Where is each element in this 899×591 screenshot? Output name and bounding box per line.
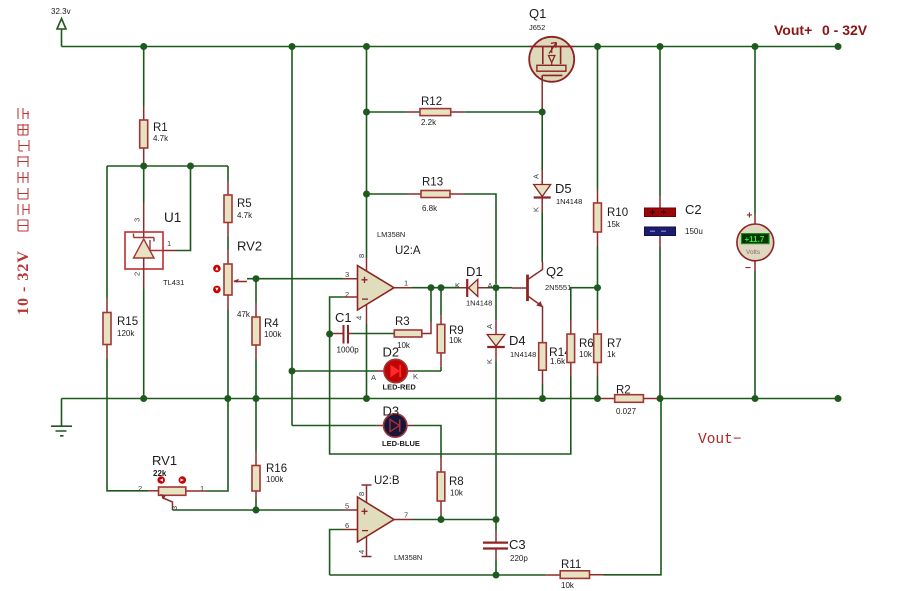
svg-text:A: A [371, 373, 376, 382]
svg-text:D5: D5 [555, 181, 572, 196]
svg-text:LM358N: LM358N [394, 553, 422, 562]
LED D3 LED-BLUE [292, 404, 441, 459]
power terminal 32.3v [51, 7, 71, 47]
svg-text:0.027: 0.027 [616, 407, 637, 416]
svg-text:Volts: Volts [746, 249, 761, 256]
svg-text:K: K [485, 359, 494, 364]
svg-text:4: 4 [355, 316, 364, 320]
svg-text:15k: 15k [607, 220, 621, 229]
svg-text:A: A [485, 324, 494, 329]
svg-text:2: 2 [138, 484, 142, 493]
svg-text:3: 3 [133, 218, 142, 222]
svg-text:LM358N: LM358N [377, 230, 405, 239]
resistor R12 [367, 96, 543, 127]
wire: pin5 row to U2:B [173, 509, 344, 511]
junction dot Q1 gate node [539, 109, 546, 116]
svg-text:R13: R13 [422, 177, 443, 189]
junction dot D2 anode branch [289, 368, 296, 375]
svg-text:47k: 47k [237, 310, 251, 319]
resistor R7 [594, 288, 622, 399]
op-amp U1 TL431 [125, 166, 191, 399]
svg-text:120k: 120k [117, 329, 135, 338]
svg-text:4: 4 [357, 550, 366, 554]
svg-text:A: A [488, 281, 493, 290]
wire: TL431 reference row y=166 [107, 165, 228, 167]
svg-text:8: 8 [357, 254, 366, 258]
potentiometer RV2 47k [186, 239, 262, 492]
svg-text:1N4148: 1N4148 [466, 299, 492, 308]
wire: LED anode column x=292 from +32V rail down to D3 row [291, 47, 293, 426]
title: vertical red text 10-32V adjustable switching power supply [15, 108, 32, 315]
svg-text:R5: R5 [237, 198, 252, 210]
svg-text:22k: 22k [153, 469, 167, 478]
svg-text:Q1: Q1 [529, 6, 546, 21]
junction dot RV2 wiper node [253, 275, 260, 282]
wire: top +32V rail [62, 46, 839, 48]
svg-text:4.7k: 4.7k [153, 134, 169, 143]
diode D5 1N4148 [532, 112, 583, 262]
diode D1 1N4148 [441, 264, 496, 308]
svg-text:R6: R6 [579, 338, 594, 350]
resistor R1 [140, 47, 169, 167]
svg-text:K: K [413, 372, 418, 381]
svg-text:100k: 100k [266, 475, 284, 484]
capacitor C2 150u electrolytic [645, 47, 703, 399]
resistor R13 [367, 177, 497, 285]
svg-text:RV1: RV1 [152, 453, 177, 468]
resistor R2 0.027 shunt [601, 385, 658, 417]
svg-text:1: 1 [167, 239, 171, 248]
svg-text:32.3v: 32.3v [51, 7, 71, 16]
svg-text:Q2: Q2 [546, 264, 563, 279]
junction dot R10/R6/R7 node [594, 284, 601, 291]
svg-text:2N5551: 2N5551 [545, 283, 571, 292]
svg-text:100k: 100k [264, 330, 282, 339]
svg-text:+11.7: +11.7 [745, 235, 765, 244]
resistor R16 [252, 399, 287, 511]
svg-text:2: 2 [133, 272, 142, 276]
junction dots on row 166 [140, 163, 194, 170]
wire: U2:B pin6 feedback branch [330, 530, 343, 576]
svg-text:RV2: RV2 [237, 239, 262, 254]
svg-text:+: + [747, 211, 753, 222]
svg-text:10 - 32V: 10 - 32V [15, 250, 32, 315]
diode D4 1N4148 [485, 288, 536, 520]
LED D2 LED-RED [292, 345, 441, 392]
resistor R9 [437, 288, 464, 371]
svg-text:K: K [455, 281, 460, 290]
svg-text:6: 6 [345, 521, 349, 530]
svg-text:5: 5 [345, 502, 349, 511]
capacitor C3 [483, 520, 528, 576]
svg-text:LED-BLUE: LED-BLUE [382, 439, 420, 448]
resistor R10 [594, 47, 629, 288]
svg-text:U2:B: U2:B [374, 475, 400, 487]
pin stubs U2:A pins 8 and 4 [366, 258, 368, 324]
svg-text:R11: R11 [561, 559, 581, 571]
svg-text:−: − [745, 263, 751, 274]
svg-text:D1: D1 [466, 264, 483, 279]
svg-text:R8: R8 [449, 476, 464, 488]
wire: bottom 0V rail [62, 398, 839, 400]
junction dot C1 left [326, 331, 333, 338]
junction dots on top rail [140, 43, 841, 50]
junction dots pin7 row [438, 516, 500, 523]
junction dot C3 bottom [493, 572, 500, 579]
svg-text:R16: R16 [266, 463, 287, 475]
junction dots on bottom rail [140, 395, 841, 402]
svg-text:1: 1 [404, 279, 408, 288]
svg-text:6.8k: 6.8k [422, 204, 438, 213]
svg-text:R12: R12 [421, 96, 442, 108]
svg-text:J652: J652 [529, 23, 545, 32]
svg-text:D3: D3 [383, 404, 400, 419]
svg-text:1N4148: 1N4148 [556, 197, 582, 206]
svg-text:7: 7 [404, 511, 408, 520]
svg-text:10k: 10k [449, 336, 463, 345]
svg-text:0 - 32V: 0 - 32V [822, 22, 868, 38]
wire: feedback row y=575 [330, 399, 661, 576]
svg-text:3: 3 [345, 270, 349, 279]
svg-text:R7: R7 [607, 338, 622, 350]
svg-text:Vout+: Vout+ [774, 22, 812, 38]
op-amp U2:A LM358N [343, 230, 421, 320]
potentiometer RV1 22k [138, 453, 204, 510]
svg-text:1.6k: 1.6k [550, 357, 566, 366]
op-amp U2:B LM358N [343, 475, 422, 562]
svg-text:1k: 1k [607, 350, 616, 359]
svg-text:10k: 10k [579, 350, 593, 359]
svg-text:R15: R15 [117, 316, 138, 328]
svg-text:+: + [361, 505, 368, 519]
junction dots on output row [428, 284, 500, 291]
resistor R8 [437, 458, 464, 520]
svg-text:4.7k: 4.7k [237, 211, 253, 220]
svg-text:2: 2 [345, 290, 349, 299]
resistor R4 [252, 279, 282, 399]
svg-text:1000p: 1000p [337, 346, 360, 355]
svg-text:R1: R1 [153, 122, 168, 134]
svg-text:R10: R10 [607, 207, 628, 219]
svg-text:8: 8 [357, 492, 366, 496]
svg-text:Vout−: Vout− [698, 432, 742, 448]
svg-text:K: K [532, 207, 541, 212]
svg-text:LED-RED: LED-RED [383, 383, 417, 392]
wire: C1/pin2 node down and across to R6 bottom [330, 334, 571, 454]
capacitor C1 [330, 310, 395, 355]
junction dot R16 bottom [253, 507, 260, 514]
ground [51, 399, 72, 436]
svg-text:R3: R3 [395, 316, 410, 328]
svg-text:10k: 10k [561, 581, 575, 590]
svg-text:1N4148: 1N4148 [510, 350, 536, 359]
wire: RV2 wiper to U2:A pin3 row [256, 278, 343, 280]
svg-text:U2:A: U2:A [395, 245, 421, 257]
svg-text:R4: R4 [264, 318, 279, 330]
svg-text:220p: 220p [510, 554, 528, 563]
svg-text:R2: R2 [616, 385, 631, 397]
svg-text:D4: D4 [509, 333, 526, 348]
mosfet Q1 J652 [529, 6, 574, 112]
svg-text:−: − [362, 524, 369, 538]
wire: U2:A output row [412, 287, 459, 289]
svg-text:A: A [532, 174, 541, 179]
svg-text:TL431: TL431 [163, 278, 184, 287]
resistor R11 [546, 559, 603, 590]
resistor R6 [567, 288, 598, 377]
transistor Q2 2N5551 [496, 262, 571, 343]
svg-text:2.2k: 2.2k [421, 118, 437, 127]
svg-text:150u: 150u [685, 227, 703, 236]
svg-text:+: + [361, 273, 368, 287]
svg-text:−: − [362, 292, 369, 306]
resistor R3 [394, 288, 431, 350]
wire: op-amp power column x=366.5 [366, 47, 368, 399]
resistor R5 [224, 166, 253, 250]
wire: U2:A pin2 branch [330, 297, 343, 334]
svg-text:D2: D2 [383, 345, 400, 360]
svg-text:C1: C1 [335, 310, 352, 325]
svg-text:U1: U1 [164, 210, 181, 225]
resistor R15 [103, 166, 148, 491]
wire: U2:B output row pin7 [412, 519, 496, 521]
svg-text:C2: C2 [685, 202, 702, 217]
svg-text:10k: 10k [450, 489, 464, 498]
svg-text:1: 1 [200, 484, 204, 493]
svg-text:C3: C3 [509, 537, 526, 552]
junction dots on column 366.5 [363, 109, 370, 198]
voltmeter [737, 47, 774, 399]
resistor R14 [539, 343, 572, 399]
